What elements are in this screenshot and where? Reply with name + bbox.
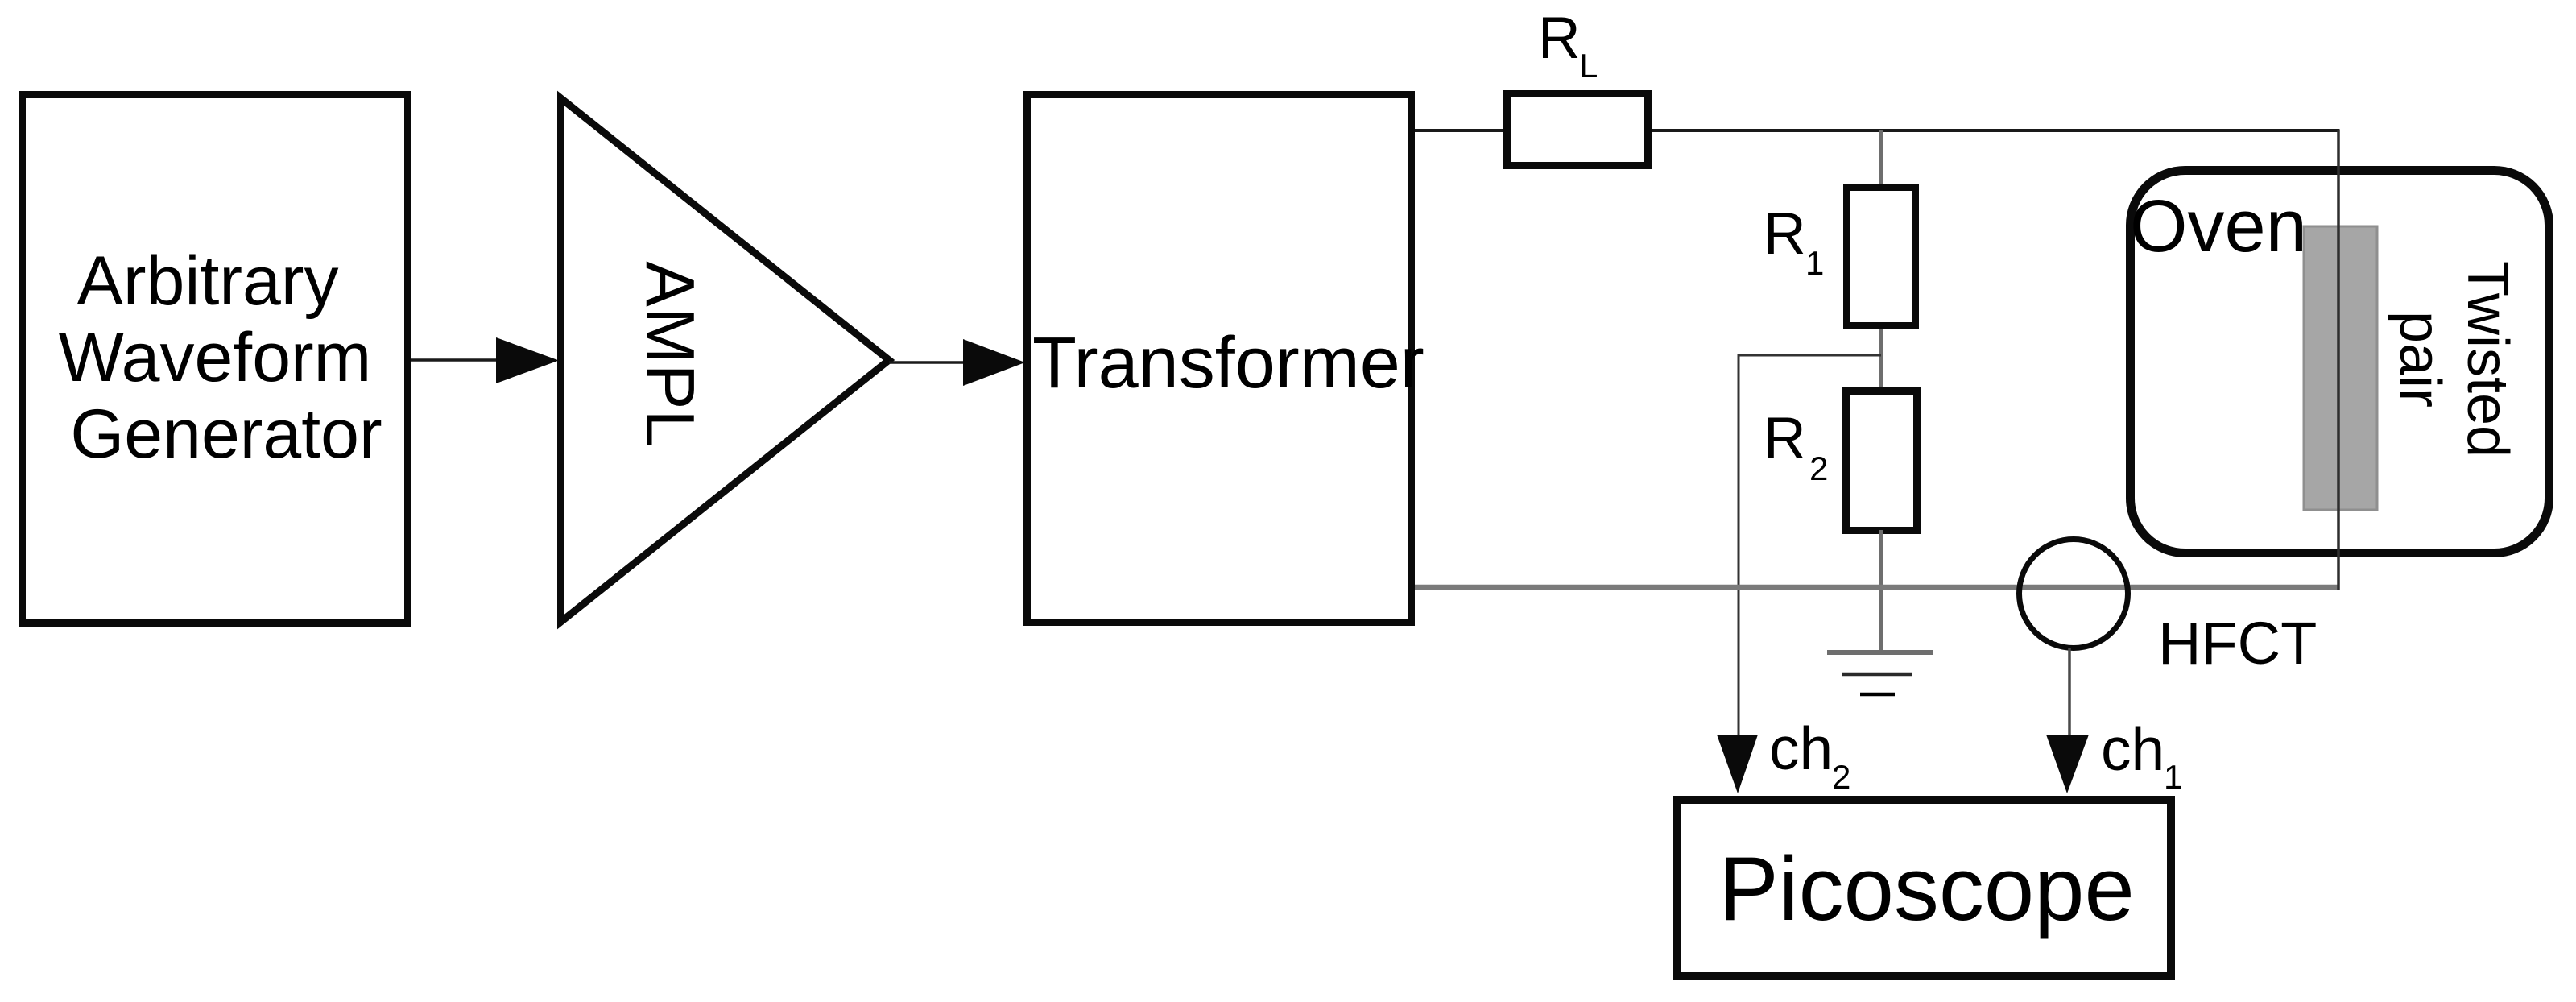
wire AMPL to Transformer [889,361,966,364]
svg-text:ch: ch [2101,715,2165,783]
wire AWG to AMPL [411,358,499,362]
wire branch down to ch2 arrow (vertical) [1738,355,1740,736]
wire Transformer to RL [1415,129,1507,132]
arrowhead into AMPL [496,337,559,383]
label AMPL (rotated) [631,261,708,447]
resistor RL [1507,94,1648,166]
svg-text:1: 1 [1805,244,1824,282]
wire HFCT to ch1 arrow [2068,648,2071,736]
label Twisted pair (rotated) [2388,261,2520,458]
svg-text:Picoscope: Picoscope [1718,838,2135,939]
resistor R2 [1846,391,1917,531]
svg-text:Transformer: Transformer [1032,323,1424,404]
svg-text:2: 2 [1832,758,1850,796]
svg-text:AMPL: AMPL [631,261,708,447]
box AWG (Arbitrary Waveform Generator) [23,95,408,623]
wire RL to right drop [1652,129,2340,132]
twisted pair sample (gray rect) [2304,226,2377,510]
svg-text:R: R [1538,6,1581,71]
arrowhead ch2 [1717,735,1758,793]
svg-text:R: R [1764,406,1806,471]
box Transformer [1028,95,1412,623]
label AWG [59,242,382,473]
bottom gray wire Transformer to oven [1415,585,2340,590]
svg-text:R: R [1764,201,1806,267]
svg-text:Generator: Generator [70,395,382,473]
box Oven (rounded) [2131,171,2549,553]
resistor R1 [1847,188,1916,326]
svg-text:HFCT: HFCT [2158,610,2317,677]
wire R1 to R2 [1879,329,1883,391]
current transformer HFCT circle [2020,540,2128,648]
svg-text:ch: ch [1769,714,1833,782]
ground symbol [1827,650,1933,655]
wire vertical right drop through oven [2337,130,2340,590]
box Picoscope [1677,800,2171,976]
wire down to R1 [1879,130,1883,187]
svg-text:2: 2 [1809,449,1828,487]
svg-text:Arbitrary: Arbitrary [77,242,339,320]
arrowhead into Transformer [963,339,1025,386]
svg-text:Twisted: Twisted [2455,261,2520,458]
amplifier AMPL triangle [561,98,890,622]
svg-text:1: 1 [2164,758,2182,796]
wire branch junction to ch2 (horizontal) [1738,354,1882,357]
svg-text:L: L [1579,47,1598,85]
svg-text:pair: pair [2388,311,2452,408]
arrowhead ch1 [2046,735,2089,793]
wire R2 to ground [1879,530,1883,652]
svg-text:Oven: Oven [2130,185,2307,267]
svg-text:Waveform: Waveform [59,319,372,396]
